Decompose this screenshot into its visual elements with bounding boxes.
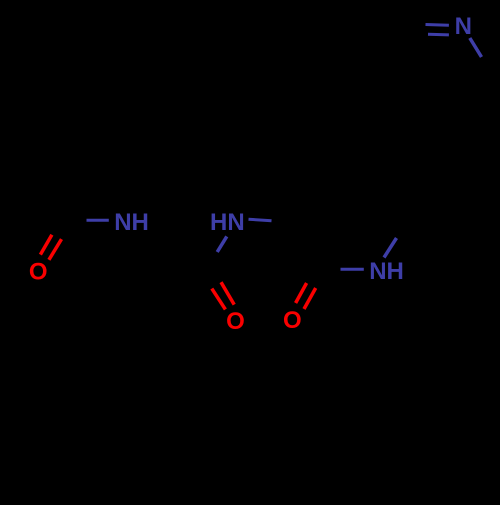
svg-text:NH: NH (114, 209, 149, 236)
svg-text:HN: HN (210, 209, 245, 236)
svg-text:O: O (29, 258, 48, 285)
svg-text:NH: NH (369, 258, 404, 285)
svg-text:N: N (455, 13, 472, 40)
svg-text:O: O (226, 308, 245, 335)
svg-text:O: O (283, 307, 302, 334)
